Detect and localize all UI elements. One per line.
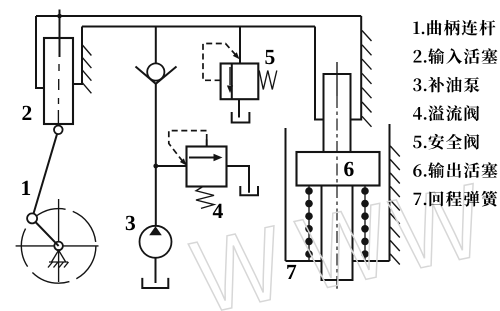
tank symbol valve 4 drain: [240, 186, 258, 195]
valve 4 pilot line (dashed): [206, 140, 208, 147]
valve 5 pilot line (dashed): [203, 44, 237, 81]
label 4: [213, 204, 223, 218]
label 2: [22, 106, 31, 120]
junction node pump/relief branch: [153, 164, 158, 169]
wall right upper (hatched): [351, 16, 362, 120]
connecting rod 1: [34, 134, 58, 214]
label 1: [22, 181, 30, 195]
cylinder 2 (input piston) body: [44, 38, 73, 124]
wall right of output cylinder (hatched): [389, 124, 391, 261]
valve 4 pilot arrowhead: [180, 158, 187, 165]
pump U3 circle: [140, 226, 172, 258]
piston 6: [297, 152, 380, 186]
centerline of cylinder 2 (dash): [57, 64, 60, 126]
wire valve 5 drain: [238, 99, 240, 117]
wire check valve to junction: [155, 84, 157, 166]
check valve (ball in seat): [147, 63, 164, 80]
crank crosshair: [16, 199, 99, 282]
wire branch to relief valve 4: [156, 165, 187, 167]
wire cylinder 2 port line: [59, 10, 61, 58]
label 3: [126, 216, 135, 230]
wire junction to pump 3: [155, 166, 157, 226]
watermark: [188, 184, 473, 311]
output piston rod lower: [322, 186, 353, 281]
wire pipe down to output cylinder chamber: [315, 27, 324, 120]
wire valve 4 outlet to tank: [227, 166, 250, 193]
output piston rod upper: [324, 74, 351, 152]
crank arm: [35, 221, 59, 246]
bracket holding cylinder 2, left side: [36, 16, 44, 88]
label 7: [287, 265, 296, 279]
pin joint piston rod to connecting rod: [54, 126, 63, 135]
crank pin: [27, 213, 37, 223]
wire second top pipe (pump line): [82, 26, 315, 28]
wire top pipe from cylinder 2 to output cylinder wall: [36, 15, 361, 17]
junction node at cylinder 2 port: [57, 14, 62, 19]
pump flow triangle: [149, 226, 162, 235]
relief valve U4 body: [187, 147, 227, 187]
label 5: [265, 50, 274, 64]
crank circle (path of crank pin): [21, 209, 96, 284]
valve 4 internal arrow: [189, 157, 216, 159]
wire valve 5 inlet: [239, 27, 241, 64]
bracket right side with wall hatching: [73, 27, 82, 85]
wire pump suction: [155, 258, 157, 283]
valve 4 spring: [196, 187, 214, 209]
crank center pin with fixed support: [54, 242, 63, 251]
tank symbol below pump: [142, 278, 168, 288]
output cylinder housing left wall: [285, 128, 287, 261]
legend text 1..7: [413, 20, 497, 207]
safety valve U5 body: [221, 64, 259, 100]
wire check valve upper: [155, 27, 157, 64]
valve 5 spring: [259, 71, 277, 90]
tank symbol valve 5 drain: [232, 112, 250, 123]
centerline of output assembly: [336, 62, 338, 96]
return spring left (beaded): [308, 186, 310, 262]
output cylinder housing bottom: [286, 260, 390, 262]
label 6: [344, 162, 353, 176]
valve 5 pilot arrowhead: [233, 52, 240, 59]
valve 5 internal poppet arrow: [229, 67, 231, 85]
return spring right (beaded): [364, 186, 366, 262]
